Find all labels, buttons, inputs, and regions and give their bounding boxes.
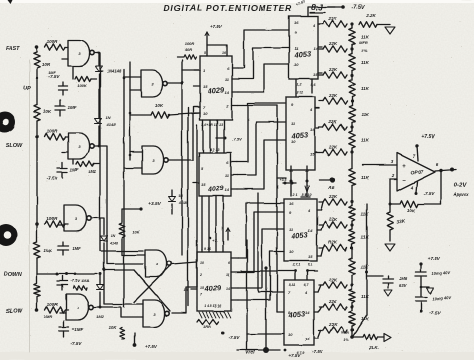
svg-text:10K: 10K <box>155 103 164 108</box>
svg-text:2LK.: 2LK. <box>368 345 379 350</box>
svg-text:22K: 22K <box>328 41 338 46</box>
svg-text:UP: UP <box>23 86 31 92</box>
svg-text:1N: 1N <box>179 194 184 198</box>
svg-text:SLOW: SLOW <box>6 309 23 315</box>
svg-text:+7.: +7. <box>212 238 218 243</box>
svg-text:-7.5V: -7.5V <box>232 137 242 142</box>
svg-text:14: 14 <box>305 310 310 315</box>
svg-text:10K: 10K <box>44 248 53 253</box>
svg-text:10K: 10K <box>108 325 117 330</box>
svg-text:-7.5V: -7.5V <box>312 349 324 354</box>
svg-text:MFR: MFR <box>359 40 368 45</box>
svg-text:14: 14 <box>310 127 315 132</box>
svg-text:16: 16 <box>294 20 299 25</box>
svg-text:1N4148: 1N4148 <box>107 69 122 74</box>
svg-text:5 10: 5 10 <box>305 193 312 197</box>
svg-text:2: 2 <box>391 173 395 178</box>
svg-text:-7.5V: -7.5V <box>424 191 436 196</box>
svg-text:100R: 100R <box>47 129 59 134</box>
svg-text:+7.5V: +7.5V <box>428 256 441 262</box>
svg-text:12 13: 12 13 <box>211 148 220 152</box>
svg-text:10mg 40V: 10mg 40V <box>432 295 451 301</box>
svg-text:100R: 100R <box>47 302 59 307</box>
svg-text:15: 15 <box>308 254 313 259</box>
svg-text:14: 14 <box>226 287 230 291</box>
svg-text:2: 2 <box>199 273 202 277</box>
svg-text:=1MF: =1MF <box>72 327 84 332</box>
svg-text:11: 11 <box>226 273 230 277</box>
svg-text:22K: 22K <box>328 67 338 72</box>
svg-text:FAST: FAST <box>6 46 21 52</box>
svg-text:11K: 11K <box>361 60 370 65</box>
svg-text:10: 10 <box>291 139 296 144</box>
svg-text:22K: 22K <box>328 119 338 124</box>
svg-text:-7.5V: -7.5V <box>429 310 441 316</box>
svg-text:11K: 11K <box>361 35 370 40</box>
svg-text:DIGITAL POT.ENTIOMETER: DIGITAL POT.ENTIOMETER <box>164 4 292 13</box>
svg-text:15: 15 <box>201 182 206 187</box>
svg-text:11K: 11K <box>361 86 370 91</box>
svg-text:R2K: R2K <box>328 240 338 245</box>
svg-text:-7.5V: -7.5V <box>351 5 365 11</box>
svg-text:11K: 11K <box>361 294 370 299</box>
svg-text:16: 16 <box>289 201 294 206</box>
svg-text:2.2K: 2.2K <box>365 13 376 18</box>
svg-text:Vref: Vref <box>245 350 256 356</box>
svg-text:14: 14 <box>225 90 230 95</box>
svg-text:8,1: 8,1 <box>308 263 313 267</box>
svg-text:+3.5: +3.5 <box>280 178 287 182</box>
svg-text:10K: 10K <box>132 229 140 234</box>
svg-text:16: 16 <box>222 51 226 55</box>
svg-text:10R: 10R <box>42 62 51 67</box>
svg-text:-7.5V: -7.5V <box>71 341 83 346</box>
svg-text:14: 14 <box>308 228 313 233</box>
svg-text:10: 10 <box>288 332 293 337</box>
svg-text:4148: 4148 <box>106 122 117 127</box>
svg-text:−: − <box>402 178 406 184</box>
svg-text:2,7,1: 2,7,1 <box>291 263 300 267</box>
svg-text:22K: 22K <box>328 322 338 327</box>
svg-text:100K: 100K <box>77 83 88 88</box>
svg-text:+3.5V: +3.5V <box>148 201 161 207</box>
svg-text:Approx: Approx <box>452 192 469 197</box>
svg-text:1M6: 1M6 <box>399 276 408 281</box>
svg-text:1%: 1% <box>361 48 367 53</box>
svg-text:1M2: 1M2 <box>88 169 97 174</box>
svg-text:10: 10 <box>289 249 294 254</box>
svg-text:A6: A6 <box>327 185 334 190</box>
svg-text:11K: 11K <box>361 235 370 240</box>
svg-text:-7.5V: -7.5V <box>229 335 241 340</box>
svg-text:100R: 100R <box>184 41 194 46</box>
svg-text:10: 10 <box>203 111 208 116</box>
svg-text:0-2V: 0-2V <box>454 183 468 189</box>
svg-text:100R: 100R <box>47 216 59 221</box>
svg-text:-7.5V 1MA: -7.5V 1MA <box>70 278 89 283</box>
svg-text:10: 10 <box>294 62 299 67</box>
svg-text:63V: 63V <box>399 283 408 288</box>
svg-text:4148: 4148 <box>109 241 118 245</box>
svg-text:5: 5 <box>204 51 206 55</box>
svg-text:1MR: 1MR <box>44 314 53 319</box>
svg-text:1N: 1N <box>105 115 110 120</box>
svg-text:1 4 8 15 16: 1 4 8 15 16 <box>204 304 222 308</box>
svg-text:1M2: 1M2 <box>96 314 105 319</box>
svg-text:1,2: 1,2 <box>297 83 302 87</box>
svg-text:11K: 11K <box>361 175 370 180</box>
svg-text:4029: 4029 <box>206 85 225 96</box>
svg-text:15: 15 <box>203 84 208 89</box>
svg-text:1N: 1N <box>111 234 116 238</box>
svg-text:1MF: 1MF <box>68 105 77 110</box>
svg-text:+7.5V: +7.5V <box>210 24 223 29</box>
svg-text:11K: 11K <box>361 138 370 143</box>
svg-text:15: 15 <box>313 72 318 77</box>
svg-text:1MF: 1MF <box>70 167 79 172</box>
svg-text:10K: 10K <box>407 208 416 213</box>
svg-text:6: 6 <box>228 261 230 265</box>
svg-text:14: 14 <box>225 187 230 192</box>
svg-text:6 7,9: 6 7,9 <box>296 351 304 355</box>
svg-text:+7.5V: +7.5V <box>145 344 158 349</box>
svg-text:22K: 22K <box>328 93 338 98</box>
svg-text:4: 4 <box>410 185 414 190</box>
svg-text:15: 15 <box>305 336 310 341</box>
svg-text:4148: 4148 <box>178 201 188 205</box>
svg-text:100R: 100R <box>47 39 59 44</box>
svg-text:1MF: 1MF <box>72 246 81 251</box>
svg-text:4029: 4029 <box>203 283 222 294</box>
svg-text:10K: 10K <box>43 109 52 114</box>
svg-text:DOWN: DOWN <box>4 272 22 278</box>
svg-text:15: 15 <box>200 286 204 290</box>
svg-text:22K: 22K <box>328 217 338 222</box>
svg-text:4029: 4029 <box>207 185 224 193</box>
svg-text:22K: 22K <box>328 16 338 21</box>
svg-text:2 1: 2 1 <box>292 193 298 197</box>
svg-text:15: 15 <box>184 287 189 292</box>
svg-text:11K: 11K <box>361 112 370 117</box>
svg-text:11K: 11K <box>361 212 370 217</box>
svg-text:SLOW: SLOW <box>6 143 23 149</box>
svg-text:14: 14 <box>313 46 318 51</box>
svg-text:1MF: 1MF <box>48 71 56 75</box>
svg-text:40R: 40R <box>183 47 191 52</box>
svg-text:+7.5V: +7.5V <box>421 134 435 140</box>
svg-text:-7.5V: -7.5V <box>47 176 59 181</box>
svg-text:22K: 22K <box>328 194 338 199</box>
svg-text:22K: 22K <box>328 277 338 282</box>
svg-text:11K: 11K <box>361 265 370 270</box>
svg-text:3,4+1R 12 13: 3,4+1R 12 13 <box>201 123 222 127</box>
svg-text:3 12: 3 12 <box>297 91 304 95</box>
svg-text:1%: 1% <box>343 338 349 342</box>
svg-text:OP07: OP07 <box>410 170 423 177</box>
svg-text:22K: 22K <box>328 144 338 149</box>
svg-text:15: 15 <box>310 151 315 156</box>
svg-text:MFR: MFR <box>341 331 349 335</box>
svg-text:8,11: 8,11 <box>289 283 296 287</box>
svg-text:+: + <box>402 164 406 170</box>
svg-text:10: 10 <box>200 261 204 265</box>
svg-text:10mg 40V: 10mg 40V <box>432 270 451 276</box>
svg-text:22K: 22K <box>328 299 338 304</box>
